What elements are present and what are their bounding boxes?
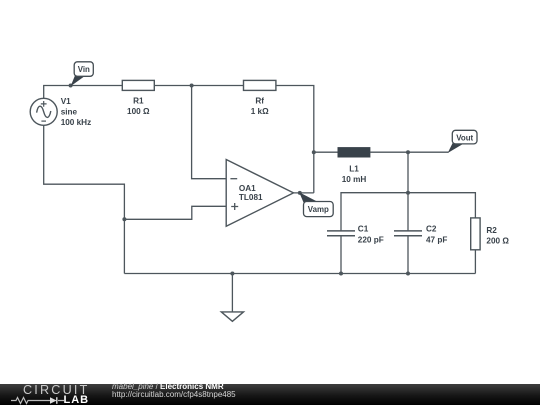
junction bottom rail ground bbox=[230, 272, 234, 276]
svg-text:R2: R2 bbox=[486, 226, 497, 235]
label L1 value bbox=[342, 165, 367, 184]
label V1 value bbox=[61, 97, 91, 127]
svg-text:Vin: Vin bbox=[78, 65, 90, 74]
wire output node to L1 bbox=[314, 151, 338, 153]
node flag Vamp bbox=[298, 191, 333, 217]
wire filter node down to top rail bbox=[407, 152, 409, 193]
label R1 value bbox=[127, 96, 150, 116]
op-amp OA1 bbox=[226, 160, 293, 227]
svg-text:10 mH: 10 mH bbox=[342, 175, 367, 184]
label Rf value bbox=[251, 96, 269, 116]
resistor R1 bbox=[122, 80, 154, 90]
svg-text:L1: L1 bbox=[349, 165, 359, 174]
wire V1 bottom to left rail bbox=[44, 125, 125, 273]
svg-text:100 kHz: 100 kHz bbox=[61, 118, 91, 127]
junction bottom rail C2 bbox=[406, 272, 410, 276]
resistor R2 bbox=[471, 218, 480, 274]
svg-text:sine: sine bbox=[61, 108, 78, 117]
svg-text:R1: R1 bbox=[133, 96, 144, 105]
svg-text:100 Ω: 100 Ω bbox=[127, 107, 150, 116]
wire inverting input bbox=[192, 86, 227, 179]
junction noninverting branch bbox=[122, 217, 126, 221]
svg-text:Vout: Vout bbox=[456, 133, 473, 142]
wire top row from V1 to R1 bbox=[44, 86, 123, 99]
label R2 value bbox=[486, 226, 509, 246]
junction bottom rail C1 bbox=[339, 272, 343, 276]
wire bottom rail bbox=[124, 273, 475, 275]
svg-text:Rf: Rf bbox=[255, 96, 264, 105]
svg-text:Vamp: Vamp bbox=[308, 205, 329, 214]
svg-text:200 Ω: 200 Ω bbox=[486, 236, 509, 245]
wire Rf to output node (feedback) bbox=[276, 86, 314, 193]
wire op-amp output bbox=[294, 192, 314, 194]
svg-text:220 pF: 220 pF bbox=[358, 236, 384, 245]
inductor L1 bbox=[338, 148, 370, 157]
label OA1 TL081 bbox=[239, 184, 263, 202]
footer bar bbox=[0, 384, 540, 405]
svg-text:1 kΩ: 1 kΩ bbox=[251, 107, 269, 116]
wire noninverting input bbox=[124, 206, 226, 219]
wire filter top rail bbox=[341, 193, 475, 231]
svg-text:V1: V1 bbox=[61, 97, 71, 106]
capacitor C2 bbox=[394, 193, 422, 274]
label C2 value bbox=[426, 225, 447, 245]
svg-text:TL081: TL081 bbox=[239, 193, 263, 202]
svg-text:OA1: OA1 bbox=[239, 184, 256, 193]
capacitor C1 bbox=[327, 231, 355, 274]
ground bbox=[221, 274, 243, 322]
junction top rail at C2 bbox=[406, 191, 410, 195]
CircuitLab logo bbox=[23, 383, 89, 397]
wire L1 to Vout bbox=[370, 151, 449, 153]
junction L1/Vout/filter node bbox=[406, 150, 410, 154]
footer credit text bbox=[112, 383, 236, 400]
junction output/feedback/L1 node bbox=[312, 150, 316, 154]
node flag Vout bbox=[448, 130, 477, 153]
voltage source V1 bbox=[30, 98, 57, 125]
svg-text:47 pF: 47 pF bbox=[426, 236, 447, 245]
svg-text:C1: C1 bbox=[358, 225, 369, 234]
wire R1 to Rf bbox=[154, 85, 243, 87]
label C1 value bbox=[358, 225, 384, 245]
junction node R1/Rf/inverting input bbox=[190, 84, 194, 88]
node flag Vin bbox=[69, 62, 94, 88]
resistor Rf bbox=[244, 80, 276, 90]
svg-text:C2: C2 bbox=[426, 225, 437, 234]
